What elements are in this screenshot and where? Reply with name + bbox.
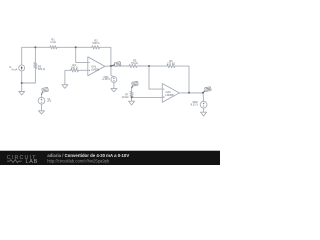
svg-text:500 Ω: 500 Ω bbox=[38, 67, 45, 71]
svg-text:adiaria / Convertidor de 4-20: adiaria / Convertidor de 4-20 mA a 0-10V bbox=[47, 153, 129, 158]
svg-text:1 kΩ: 1 kΩ bbox=[50, 40, 55, 44]
svg-text:75 kΩ: 75 kΩ bbox=[131, 61, 138, 65]
svg-text:10 kΩ: 10 kΩ bbox=[122, 95, 129, 99]
svg-text:LAB: LAB bbox=[26, 159, 39, 165]
svg-text:LM358: LM358 bbox=[91, 68, 99, 72]
svg-text:2 V: 2 V bbox=[47, 99, 51, 103]
svg-text:100 Ω: 100 Ω bbox=[71, 66, 78, 70]
svg-text:500 Ω: 500 Ω bbox=[93, 41, 100, 45]
svg-text:8.31 V: 8.31 V bbox=[191, 102, 199, 106]
svg-text:LM358: LM358 bbox=[166, 93, 174, 97]
svg-text:4 mA: 4 mA bbox=[11, 67, 17, 71]
svg-text:http://circuitlab.com/c/hw25pa: http://circuitlab.com/c/hw25pa9pb bbox=[47, 158, 110, 163]
svg-text:-2.48 V: -2.48 V bbox=[102, 77, 111, 81]
svg-text:137 kΩ: 137 kΩ bbox=[167, 62, 175, 66]
